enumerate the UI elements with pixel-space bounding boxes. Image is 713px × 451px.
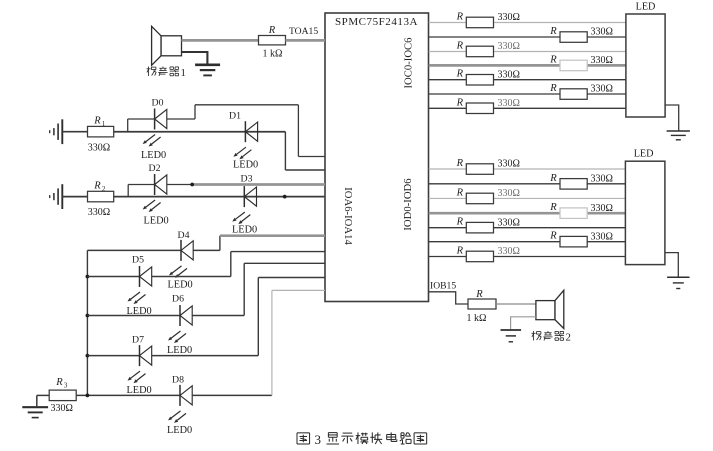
svg-text:LED0: LED0 xyxy=(232,225,257,236)
wire D2 net into U1 pin IOA8 (thick) xyxy=(194,183,325,186)
wire ground to R2 xyxy=(62,196,87,198)
wire U1 pin IOC5 to R xyxy=(429,93,560,95)
wire D0 net down to U1 xyxy=(297,105,299,157)
wire U1 pin IOC2 to R xyxy=(429,51,467,53)
wire riser D5 net xyxy=(230,252,232,277)
resistor R (IOD1 series) xyxy=(560,179,587,190)
svg-text:D3: D3 xyxy=(241,174,253,185)
svg-text:R: R xyxy=(475,289,483,300)
wire U1 pin IOD0 to R xyxy=(429,168,467,170)
wire R to LED block (net IOC6) xyxy=(494,107,626,109)
svg-text:330Ω: 330Ω xyxy=(498,188,520,199)
svg-text:R: R xyxy=(549,202,557,213)
wire ground riser (R3) xyxy=(36,395,38,407)
wire R to LED block (net IOC2) xyxy=(494,51,626,53)
wire U1 pin IOC4 to R xyxy=(429,79,467,81)
LED D4 xyxy=(180,240,182,261)
svg-text:330Ω: 330Ω xyxy=(591,55,613,66)
wire D0 net into U1 pin IOA6 xyxy=(298,156,325,158)
svg-text:330Ω: 330Ω xyxy=(88,142,110,153)
wire U1 pin IOC6 to R xyxy=(429,107,467,109)
LED D0 xyxy=(154,109,156,130)
wire R to LED block (net IOD1) xyxy=(587,183,626,185)
svg-text:R: R xyxy=(549,231,557,242)
svg-text:1 kΩ: 1 kΩ xyxy=(467,313,487,324)
resistor R (1 kΩ, speaker2) xyxy=(468,299,496,309)
svg-text:330Ω: 330Ω xyxy=(591,84,613,95)
svg-text:330Ω: 330Ω xyxy=(498,159,520,170)
wire R to LED block (net IOC0) xyxy=(494,22,626,24)
svg-text:R: R xyxy=(456,69,464,80)
svg-text:TOA15: TOA15 xyxy=(289,26,318,37)
wire D8 anode run xyxy=(192,394,272,396)
ground (row R1) xyxy=(61,119,63,144)
wire ground to R1 xyxy=(62,131,87,133)
resistor R (IOC5 series) xyxy=(560,89,587,100)
LED display block 2 xyxy=(625,161,665,264)
svg-text:IOA6-IOA14: IOA6-IOA14 xyxy=(342,187,354,245)
svg-text:R: R xyxy=(93,116,101,127)
wire D5 anode run xyxy=(152,276,231,278)
wire ground to R3 xyxy=(37,394,49,396)
svg-text:330Ω: 330Ω xyxy=(498,217,520,228)
wire D4 anode run xyxy=(193,249,220,251)
svg-text:3: 3 xyxy=(315,432,322,447)
wire U1 pin IOC0 to R xyxy=(429,22,467,24)
wire R to LED block (net IOD4) xyxy=(494,227,626,229)
wire R to LED block (net IOD5) xyxy=(587,241,626,243)
svg-text:R: R xyxy=(456,246,464,257)
svg-text:LED: LED xyxy=(636,2,656,13)
resistor R (IOD4 series) xyxy=(466,222,493,233)
op-amp-style MCU block U1 SPMC75F2413A xyxy=(325,13,429,302)
svg-text:R: R xyxy=(456,187,464,198)
wire D2 branch xyxy=(128,184,154,186)
wire R to LED block (net IOD0) xyxy=(494,168,626,170)
svg-text:LED0: LED0 xyxy=(167,425,192,436)
wire D7 net into U1 pin IOA13 xyxy=(258,277,325,279)
wire row D7 xyxy=(87,355,139,357)
LED display block 1 xyxy=(626,14,665,117)
svg-text:LED0: LED0 xyxy=(144,216,169,227)
svg-text:D0: D0 xyxy=(152,98,164,109)
wire row A main (R1 to D1 to corner) xyxy=(114,131,286,133)
wire riser D8 net xyxy=(271,290,273,395)
wire D2 anode run xyxy=(167,184,195,186)
ground (row R2) xyxy=(61,184,63,209)
svg-text:R: R xyxy=(549,54,557,65)
wire R to LED block (net IOC1) xyxy=(587,36,626,38)
wire common bus (R3 net vertical) xyxy=(86,250,88,395)
svg-text:R: R xyxy=(456,217,464,228)
wire row B main (R2 to D3 to U1 pin IOA9) xyxy=(114,196,325,198)
resistor R (IOD0 series) xyxy=(466,164,493,175)
svg-text:D1: D1 xyxy=(229,111,241,122)
resistor R (IOC6 series) xyxy=(466,103,493,114)
wire U1 pin IOC1 to R xyxy=(429,36,560,38)
speaker LS2 label 杨声器2 xyxy=(533,331,535,340)
speaker LS1 label 杨声器1 xyxy=(148,67,150,76)
svg-text:LED0: LED0 xyxy=(167,345,192,356)
svg-text:R: R xyxy=(549,26,557,37)
svg-text:330Ω: 330Ω xyxy=(51,403,73,414)
LED D2 xyxy=(154,174,156,195)
junction dot (bus/D5) xyxy=(86,275,90,279)
svg-text:IOB15: IOB15 xyxy=(430,281,456,292)
wire riser D7 net xyxy=(257,278,259,356)
wire R to LED block (net IOD6) xyxy=(494,256,626,258)
svg-text:330Ω: 330Ω xyxy=(498,41,520,52)
resistor R (IOC0 series) xyxy=(466,17,493,28)
svg-text:LED0: LED0 xyxy=(127,385,152,396)
ground (row R3) xyxy=(22,406,48,408)
wire riser to D2 branch xyxy=(127,185,129,197)
svg-text:330Ω: 330Ω xyxy=(498,12,520,23)
svg-text:R: R xyxy=(549,173,557,184)
wire row D4 xyxy=(87,249,181,251)
junction dot (bus/D6) xyxy=(86,314,90,318)
resistor R (IOD5 series) xyxy=(560,236,587,247)
svg-text:D8: D8 xyxy=(172,375,184,386)
wire D0 anode to corner xyxy=(167,118,195,120)
speaker LS2 (杨声器2) xyxy=(536,301,555,320)
LED D1 xyxy=(244,121,246,142)
svg-text:R: R xyxy=(456,12,464,23)
svg-text:330Ω: 330Ω xyxy=(498,69,520,80)
svg-text:LED: LED xyxy=(634,149,654,160)
svg-text:2: 2 xyxy=(566,332,571,344)
LED D7 xyxy=(139,345,141,366)
svg-text:R: R xyxy=(93,181,101,192)
wire row D8 (R3 to D8) xyxy=(76,394,180,396)
wire D6 anode run xyxy=(192,315,244,317)
svg-text:330Ω: 330Ω xyxy=(591,231,613,242)
wire riser to D0 branch xyxy=(127,119,129,132)
svg-text:330Ω: 330Ω xyxy=(591,27,613,38)
resistor R2 xyxy=(88,191,114,202)
svg-text:R: R xyxy=(456,97,464,108)
svg-text:R: R xyxy=(549,83,557,94)
resistor R3 xyxy=(49,390,76,401)
LED D8 xyxy=(179,385,181,406)
wire R to LED block (net IOC5) xyxy=(587,93,626,95)
svg-text:IOD0-IOD6: IOD0-IOD6 xyxy=(402,178,414,231)
resistor R (IOC2 series) xyxy=(466,46,493,57)
wire riser D4 net xyxy=(219,236,221,251)
svg-text:D4: D4 xyxy=(178,230,190,241)
svg-text:330Ω: 330Ω xyxy=(591,174,613,185)
svg-text:1 kΩ: 1 kΩ xyxy=(263,49,283,60)
wire LED block 1 to ground xyxy=(665,105,679,131)
svg-text:LED0: LED0 xyxy=(141,150,166,161)
wire row D5 xyxy=(87,276,139,278)
ground (LED block 2) xyxy=(667,276,689,278)
svg-text:1: 1 xyxy=(102,120,106,128)
svg-text:D6: D6 xyxy=(172,294,184,305)
wire D1 net into U1 pin IOA7 xyxy=(285,169,325,171)
wire U1 pin IOB15 to R xyxy=(429,292,468,304)
wire U1 pin IOD5 to R xyxy=(429,241,560,243)
resistor R1 xyxy=(88,126,114,136)
ground (speaker1) xyxy=(195,64,220,67)
wire R to speaker2 xyxy=(496,303,536,305)
wire R to LED block (net IOD3) xyxy=(587,212,626,215)
wire riser D0 net up xyxy=(194,105,196,119)
resistor R (IOD6 series) xyxy=(466,251,493,262)
wire speaker1 to R (thick net) xyxy=(182,39,259,42)
junction dot (bus/D7) xyxy=(86,354,90,358)
wire R to LED block (net IOD2) xyxy=(494,197,626,199)
junction dot (bus/R3) xyxy=(86,394,90,398)
wire U1 pin IOC3 to R xyxy=(429,64,560,67)
wire D0 net top run xyxy=(195,104,298,106)
wire row D6 xyxy=(87,315,180,317)
wire R to LED block (net IOC4) xyxy=(494,79,626,81)
resistor R (IOC3 series) xyxy=(560,60,587,70)
junction dot (D3 net) xyxy=(283,195,287,199)
svg-text:2: 2 xyxy=(102,185,106,193)
svg-text:D2: D2 xyxy=(149,163,161,174)
svg-text:3: 3 xyxy=(64,382,68,390)
svg-text:D7: D7 xyxy=(132,335,144,346)
wire R to LED block (net IOC3) xyxy=(587,64,626,67)
svg-text:R: R xyxy=(456,158,464,169)
wire TOA15 net (R to U1) xyxy=(286,39,326,42)
wire D8 net into U1 pin IOA14 xyxy=(272,289,325,291)
LED D6 xyxy=(179,305,181,326)
LED D5 xyxy=(139,266,141,287)
svg-text:R: R xyxy=(268,25,276,36)
svg-text:R: R xyxy=(55,377,63,388)
wire speaker1 to ground xyxy=(182,52,208,65)
resistor R (1 kΩ, speaker1) xyxy=(259,36,286,45)
svg-text:IOC0-IOC6: IOC0-IOC6 xyxy=(403,37,415,89)
caption 图3 显示模块电路图 xyxy=(297,432,310,434)
wire LED block 2 to ground xyxy=(665,253,678,278)
wire U1 pin IOD4 to R xyxy=(429,227,467,229)
svg-text:330Ω: 330Ω xyxy=(88,207,110,218)
ground (speaker2) xyxy=(501,329,522,331)
svg-text:R: R xyxy=(456,41,464,52)
wire U1 pin IOD6 to R xyxy=(429,256,467,258)
junction dot (D2 net) xyxy=(190,183,194,187)
svg-text:330Ω: 330Ω xyxy=(498,246,520,257)
wire riser D6 net xyxy=(243,263,245,315)
wire U1 pin IOD3 to R xyxy=(429,212,560,215)
wire D4 net into U1 pin IOA10 (thick) xyxy=(220,234,325,237)
wire D7 anode run xyxy=(152,355,259,357)
wire D6 net into U1 pin IOA12 xyxy=(244,262,325,264)
svg-text:1: 1 xyxy=(181,67,186,79)
svg-text:SPMC75F2413A: SPMC75F2413A xyxy=(335,16,418,28)
svg-text:LED0: LED0 xyxy=(168,280,193,291)
speaker LS1 (杨声器1) xyxy=(161,36,182,56)
resistor R (IOD3 series) xyxy=(560,208,587,219)
wire speaker2 to ground xyxy=(511,317,536,330)
resistor R (IOC1 series) xyxy=(560,32,587,43)
resistor R (IOC4 series) xyxy=(466,75,493,86)
wire D0 branch xyxy=(128,118,155,120)
svg-text:330Ω: 330Ω xyxy=(498,98,520,109)
ground (LED block 1) xyxy=(667,130,690,132)
svg-text:LED0: LED0 xyxy=(233,160,258,171)
resistor R (IOD2 series) xyxy=(466,193,493,204)
svg-text:D5: D5 xyxy=(132,255,144,266)
wire U1 pin IOD1 to R xyxy=(429,183,560,185)
wire D5 net into U1 pin IOA11 xyxy=(231,251,325,253)
LED D3 xyxy=(243,186,245,207)
wire row A down to U1 xyxy=(284,132,286,170)
wire U1 pin IOD2 to R xyxy=(429,197,467,199)
svg-text:330Ω: 330Ω xyxy=(591,203,613,214)
